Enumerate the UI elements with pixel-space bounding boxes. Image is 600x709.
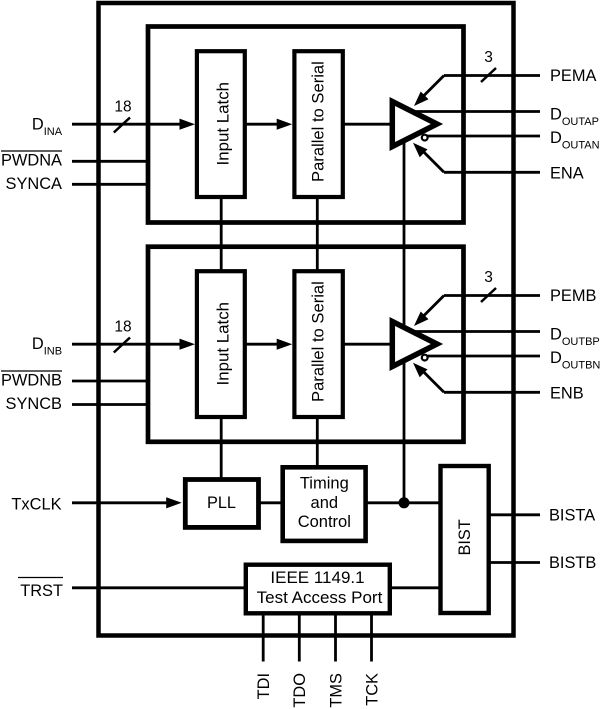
svg-text:3: 3 (484, 269, 493, 286)
wire: TAP to BIST (390, 586, 441, 589)
parallel to serial B box (294, 271, 342, 417)
svg-text:ENB: ENB (550, 385, 584, 403)
svg-text:and: and (311, 494, 339, 512)
wire PEMA with arrow into driver A (444, 74, 540, 77)
wire: PLL clock to Input Latch A / Input Latch B (220, 197, 223, 274)
output driver (buffer) B (392, 322, 437, 367)
svg-text:Timing: Timing (300, 474, 349, 492)
wire PWDNA (72, 160, 148, 163)
wire BISTB (488, 561, 540, 564)
wire DOUTBP (414, 330, 540, 333)
svg-text:18: 18 (114, 99, 131, 116)
wire DOUTAN (428, 135, 541, 138)
wire TxCLK into PLL (72, 501, 169, 504)
channel B block box (148, 247, 464, 442)
wire: serial clock line from Timing and Control node up to output drivers (403, 140, 406, 503)
svg-text:BIST: BIST (456, 519, 474, 555)
bus slash DINA (114, 118, 130, 133)
input latch A box (197, 51, 245, 197)
inversion bubble A (422, 135, 428, 141)
timing and control box (283, 467, 366, 541)
wire PWDNB (72, 380, 148, 383)
pin label TRST (active low) (18, 577, 63, 579)
wire TDO (298, 613, 301, 662)
bus slash PEMA (481, 68, 496, 82)
wire BISTA (488, 513, 540, 516)
bus slash PEMB (481, 288, 496, 302)
svg-text:BISTA: BISTA (549, 506, 595, 524)
svg-text:TxCLK: TxCLK (11, 496, 61, 514)
wire: Input Latch B to Parallel to Serial B (245, 343, 280, 346)
bus slash DINB (114, 338, 130, 353)
wire TRST into TAP (72, 586, 246, 589)
svg-text:3: 3 (484, 49, 493, 66)
svg-text:Test Access Port: Test Access Port (257, 588, 383, 607)
svg-text:Control: Control (298, 513, 351, 531)
svg-text:TMS: TMS (328, 673, 346, 708)
pin label PWDNB (active low) (1, 370, 62, 372)
output driver (buffer) A (392, 102, 437, 147)
wire TCK (370, 613, 373, 662)
svg-text:PWDNB: PWDNB (1, 372, 62, 390)
svg-text:BISTB: BISTB (549, 554, 596, 572)
wire: Input Latch A to Parallel to Serial A (245, 123, 280, 126)
svg-text:Parallel to Serial: Parallel to Serial (309, 281, 328, 402)
wire: Parallel to Serial B to output driver B (342, 343, 392, 346)
wire: Timing and Control to BIST (366, 501, 441, 504)
svg-text:18: 18 (114, 319, 131, 336)
svg-text:IEEE 1149.1: IEEE 1149.1 (270, 568, 364, 587)
svg-text:TRST: TRST (20, 582, 63, 600)
svg-text:Input Latch: Input Latch (214, 302, 233, 386)
wire: DINB bus into Input Latch B (72, 343, 182, 346)
svg-text:TDO: TDO (291, 673, 309, 708)
svg-text:PWDNA: PWDNA (1, 152, 62, 170)
svg-text:ENA: ENA (550, 165, 584, 183)
wire TMS (334, 613, 337, 662)
wire DOUTAP (414, 110, 540, 113)
PLL box (185, 480, 258, 528)
wire: PLL to Timing and Control (259, 501, 285, 504)
svg-text:SYNCB: SYNCB (6, 395, 63, 413)
wire: Parallel to Serial A to output driver A (342, 123, 392, 126)
wire ENA with arrow into driver A (444, 171, 540, 174)
svg-text:PEMB: PEMB (550, 287, 597, 305)
svg-text:SYNCA: SYNCA (6, 175, 63, 193)
svg-text:Parallel to Serial: Parallel to Serial (309, 61, 328, 182)
svg-text:TDI: TDI (255, 673, 273, 699)
inversion bubble B (422, 355, 428, 361)
outer box: device boundary (99, 3, 514, 636)
svg-text:Input Latch: Input Latch (214, 82, 233, 166)
junction node (399, 497, 410, 508)
wire DOUTBN (428, 355, 541, 358)
svg-text:PLL: PLL (207, 494, 236, 512)
wire PEMB with arrow into driver B (444, 294, 540, 297)
wire SYNCB (72, 403, 148, 406)
svg-text:TCK: TCK (364, 673, 382, 706)
wire: Timing clock to Parallel to Serial A / B (316, 197, 319, 274)
wire SYNCA (72, 183, 148, 186)
channel A block box (148, 27, 464, 223)
wire: DINA bus into Input Latch A (72, 123, 182, 126)
svg-text:PEMA: PEMA (550, 67, 597, 85)
wire TDI (262, 613, 265, 662)
parallel to serial A box (294, 51, 342, 197)
wire ENB with arrow into driver B (444, 391, 540, 394)
IEEE 1149.1 test access port box (246, 565, 390, 614)
BIST box (441, 466, 489, 613)
pin label PWDNA (active low) (1, 150, 62, 152)
input latch B box (197, 271, 245, 417)
